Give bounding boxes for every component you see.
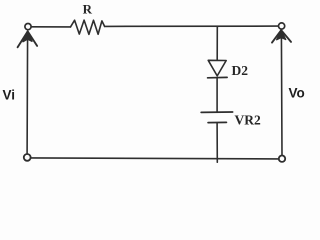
- svg-text:D2: D2: [232, 63, 249, 78]
- diode D2: [208, 60, 228, 78]
- wire: left vertical branch (input): [26, 33, 29, 154]
- terminal: bottom-left: [24, 154, 31, 161]
- svg-text:VR2: VR2: [235, 113, 261, 128]
- terminal: output top-right: [279, 23, 285, 29]
- terminal: bottom-right: [279, 156, 285, 162]
- wire: battery to bottom rail (with overshoot below): [216, 123, 218, 162]
- wire: right vertical branch (output): [280, 32, 283, 156]
- svg-text:Vi: Vi: [3, 88, 16, 103]
- node: T-junction of top rail and diode branch: [216, 25, 218, 28]
- terminal: input top-left: [25, 24, 31, 30]
- arrow: Vo polarity (points up at output terminal): [272, 30, 291, 43]
- resistor R: [71, 20, 105, 34]
- wire: top-left terminal to resistor: [31, 26, 70, 28]
- wire: bottom rail: [31, 158, 279, 159]
- wire: resistor to top-right terminal: [105, 25, 279, 27]
- svg-text:R: R: [83, 1, 93, 16]
- battery VR2: [201, 112, 232, 123]
- svg-text:Vo: Vo: [289, 86, 305, 101]
- wire: top junction down to diode D2: [216, 27, 218, 60]
- wire: diode cathode to battery VR2: [216, 78, 218, 112]
- arrow: Vi polarity (points up at input terminal): [18, 31, 37, 47]
